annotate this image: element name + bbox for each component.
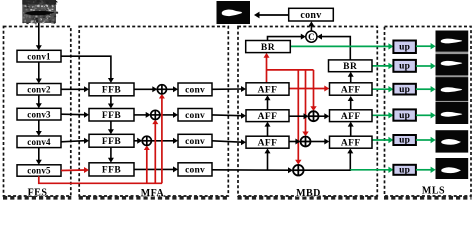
svg-text:C: C	[308, 32, 315, 42]
svg-text:AFF: AFF	[258, 112, 278, 122]
svg-text:conv1: conv1	[27, 51, 51, 61]
svg-text:AFF: AFF	[258, 139, 278, 149]
svg-text:conv: conv	[185, 166, 205, 176]
svg-text:conv2: conv2	[27, 84, 51, 94]
svg-text:AFF: AFF	[341, 112, 361, 122]
svg-text:FFB: FFB	[102, 86, 121, 96]
svg-text:up: up	[399, 62, 410, 72]
svg-text:BR: BR	[343, 62, 357, 72]
svg-text:up: up	[399, 166, 410, 176]
svg-text:up: up	[399, 85, 410, 95]
svg-text:FFB: FFB	[102, 111, 121, 121]
svg-text:up: up	[399, 136, 410, 146]
svg-text:AFF: AFF	[258, 85, 278, 95]
svg-text:FFB: FFB	[102, 137, 121, 147]
svg-text:conv: conv	[300, 10, 321, 21]
svg-text:conv4: conv4	[27, 137, 51, 147]
svg-text:MBD: MBD	[296, 188, 321, 199]
svg-text:up: up	[399, 42, 410, 52]
svg-text:AFF: AFF	[341, 85, 361, 95]
svg-text:conv3: conv3	[27, 109, 51, 119]
svg-text:MLS: MLS	[422, 186, 445, 197]
svg-text:conv: conv	[185, 137, 205, 147]
svg-text:FES: FES	[28, 188, 48, 199]
svg-text:AFF: AFF	[341, 139, 361, 149]
svg-text:conv5: conv5	[27, 166, 51, 176]
svg-text:conv: conv	[185, 86, 205, 96]
svg-text:up: up	[399, 111, 410, 121]
svg-text:conv: conv	[185, 111, 205, 121]
svg-text:MFA: MFA	[141, 188, 165, 199]
svg-text:BR: BR	[261, 43, 275, 53]
svg-text:FFB: FFB	[102, 166, 121, 176]
